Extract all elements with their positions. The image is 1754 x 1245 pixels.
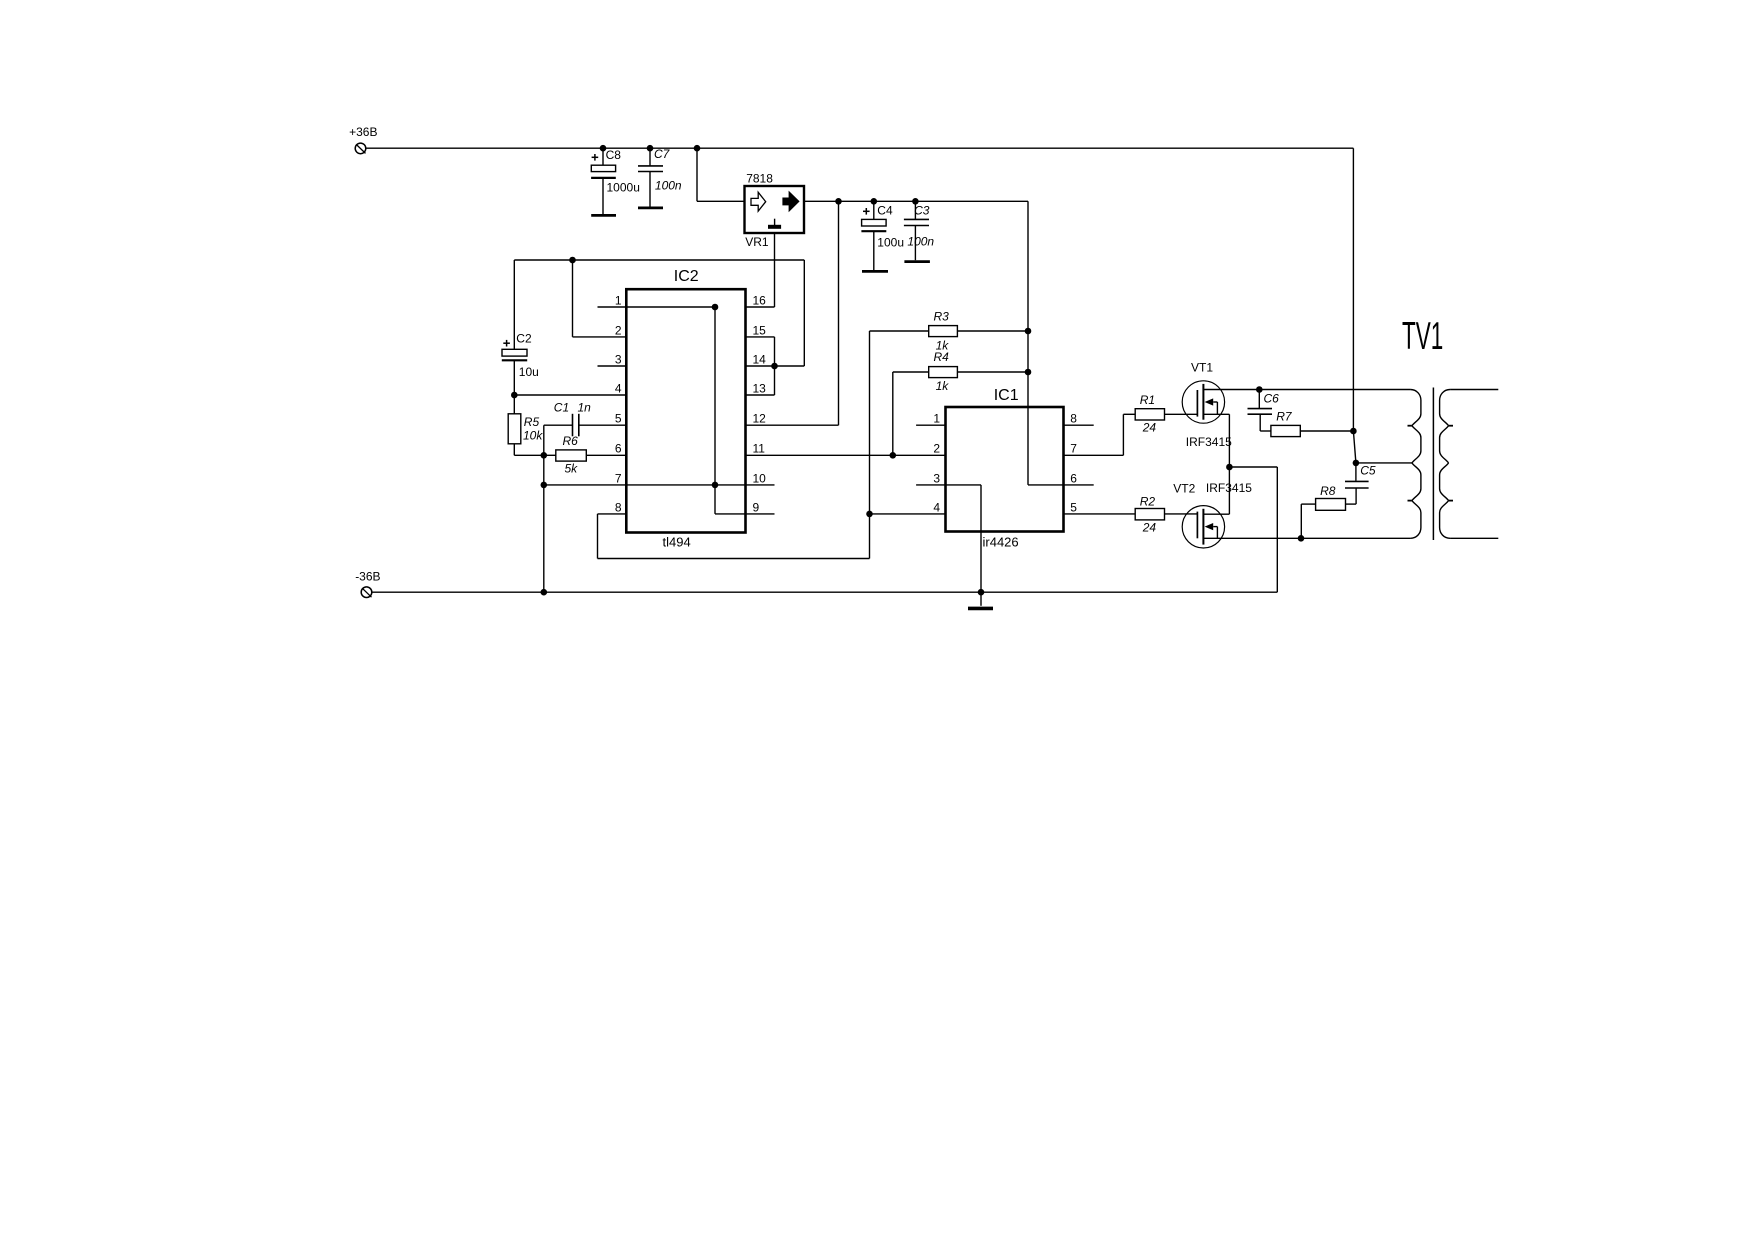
svg-text:10u: 10u [519, 365, 539, 379]
svg-text:R5: R5 [524, 415, 540, 429]
svg-text:10: 10 [753, 471, 767, 485]
svg-text:R1: R1 [1140, 393, 1155, 407]
svg-text:1: 1 [615, 293, 622, 307]
svg-text:C1: C1 [554, 401, 569, 415]
svg-text:16: 16 [753, 293, 767, 307]
svg-text:TV1: TV1 [1402, 313, 1443, 357]
svg-text:C8: C8 [606, 148, 622, 162]
svg-text:3: 3 [615, 352, 622, 366]
svg-text:C7: C7 [654, 147, 671, 161]
svg-text:IC2: IC2 [674, 268, 699, 285]
svg-text:8: 8 [1070, 412, 1077, 426]
svg-text:6: 6 [615, 442, 622, 456]
svg-text:R4: R4 [934, 350, 950, 364]
svg-text:R2: R2 [1140, 495, 1156, 509]
svg-text:7: 7 [615, 471, 622, 485]
svg-text:VT1: VT1 [1191, 361, 1213, 375]
svg-text:13: 13 [753, 381, 767, 395]
svg-text:100u: 100u [877, 235, 904, 249]
svg-text:100n: 100n [907, 235, 934, 249]
svg-text:1k: 1k [936, 379, 950, 393]
svg-text:4: 4 [615, 381, 622, 395]
svg-text:C3: C3 [914, 204, 930, 218]
svg-text:R8: R8 [1320, 484, 1336, 498]
svg-text:1: 1 [933, 412, 940, 426]
svg-text:10k: 10k [523, 429, 543, 443]
svg-text:2: 2 [933, 442, 940, 456]
svg-text:R3: R3 [934, 310, 950, 324]
svg-text:1000u: 1000u [607, 180, 640, 194]
svg-text:2: 2 [615, 323, 622, 337]
svg-text:6: 6 [1070, 471, 1077, 485]
svg-text:7: 7 [1070, 442, 1077, 456]
svg-text:VR1: VR1 [745, 235, 769, 249]
svg-text:12: 12 [753, 412, 767, 426]
svg-text:-36В: -36В [355, 569, 380, 583]
svg-text:100n: 100n [655, 179, 682, 193]
svg-text:7818: 7818 [746, 172, 773, 186]
svg-text:8: 8 [615, 500, 622, 514]
svg-text:11: 11 [753, 442, 766, 456]
svg-text:C6: C6 [1264, 392, 1280, 406]
svg-text:9: 9 [753, 500, 760, 514]
svg-text:5: 5 [615, 412, 622, 426]
svg-text:14: 14 [753, 352, 767, 366]
svg-text:C5: C5 [1360, 464, 1376, 478]
svg-text:ir4426: ir4426 [983, 535, 1019, 550]
svg-text:R6: R6 [563, 434, 579, 448]
svg-text:3: 3 [933, 471, 940, 485]
svg-text:4: 4 [933, 500, 940, 514]
svg-text:VT2: VT2 [1173, 481, 1195, 495]
svg-text:C4: C4 [877, 204, 893, 218]
svg-text:+36В: +36В [349, 125, 377, 139]
svg-text:C2: C2 [516, 332, 532, 346]
svg-text:24: 24 [1142, 521, 1157, 535]
svg-text:tl494: tl494 [663, 534, 691, 549]
svg-text:R7: R7 [1276, 410, 1293, 424]
svg-text:IRF3415: IRF3415 [1206, 481, 1252, 495]
svg-text:1n: 1n [578, 401, 592, 415]
svg-text:IRF3415: IRF3415 [1186, 435, 1232, 449]
svg-text:5k: 5k [565, 462, 579, 476]
svg-text:IC1: IC1 [994, 387, 1019, 404]
svg-text:24: 24 [1142, 421, 1157, 435]
svg-text:15: 15 [753, 323, 767, 337]
svg-text:5: 5 [1070, 500, 1077, 514]
